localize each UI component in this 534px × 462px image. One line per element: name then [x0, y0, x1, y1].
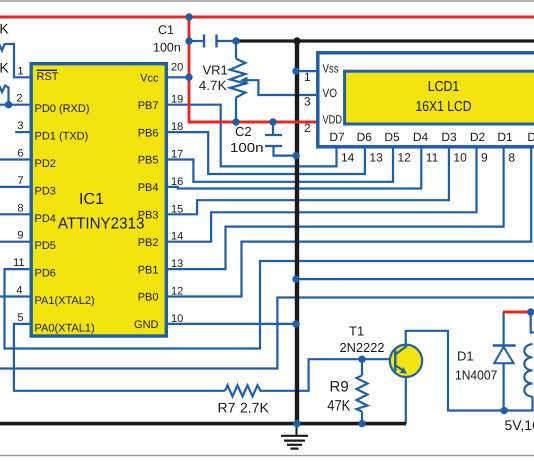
svg-text:PB1: PB1 — [138, 264, 159, 276]
svg-text:D7: D7 — [329, 130, 345, 144]
svg-text:3: 3 — [304, 95, 311, 109]
svg-text:13: 13 — [369, 151, 383, 165]
svg-text:20: 20 — [171, 62, 183, 74]
svg-text:12: 12 — [171, 286, 183, 298]
svg-text:19: 19 — [171, 94, 183, 106]
svg-text:PD4: PD4 — [35, 213, 56, 225]
svg-text:PB5: PB5 — [138, 155, 159, 167]
svg-text:3: 3 — [17, 120, 23, 132]
svg-text:D1: D1 — [457, 349, 474, 364]
svg-text:D3: D3 — [441, 130, 457, 144]
svg-text:RST: RST — [37, 71, 59, 83]
svg-text:PD3: PD3 — [35, 185, 56, 197]
svg-text:2: 2 — [304, 121, 311, 135]
svg-text:10: 10 — [171, 313, 183, 325]
svg-text:PB4: PB4 — [138, 182, 159, 194]
svg-text:13: 13 — [171, 258, 183, 270]
svg-text:2: 2 — [16, 93, 22, 105]
svg-text:PB7: PB7 — [138, 100, 159, 112]
svg-text:8: 8 — [508, 151, 515, 165]
svg-text:PD2: PD2 — [35, 158, 56, 170]
svg-text:C2: C2 — [235, 124, 252, 139]
svg-text:17: 17 — [171, 149, 183, 161]
svg-text:5: 5 — [17, 312, 23, 324]
svg-text:PD1 (TXD): PD1 (TXD) — [35, 131, 89, 143]
svg-text:47K: 47K — [327, 398, 350, 415]
svg-text:18: 18 — [171, 121, 183, 133]
svg-text:C1: C1 — [158, 23, 174, 37]
svg-text:T1: T1 — [349, 323, 364, 338]
svg-text:PA0(XTAL1): PA0(XTAL1) — [35, 322, 95, 334]
svg-text:8: 8 — [17, 202, 23, 214]
svg-text:11: 11 — [13, 257, 24, 269]
svg-text:9: 9 — [481, 151, 488, 165]
svg-text:16: 16 — [171, 176, 183, 188]
svg-text:1: 1 — [17, 65, 23, 77]
svg-text:LCD1: LCD1 — [428, 79, 460, 95]
svg-text:VDD: VDD — [323, 113, 343, 127]
svg-text:Vss: Vss — [323, 62, 339, 76]
svg-text:PD0 (RXD): PD0 (RXD) — [35, 103, 90, 115]
svg-text:K: K — [0, 21, 9, 37]
svg-text:ATTINY2313: ATTINY2313 — [58, 216, 145, 233]
svg-text:PD5: PD5 — [35, 240, 56, 252]
svg-text:D0: D0 — [527, 130, 534, 144]
svg-text:11: 11 — [426, 151, 439, 165]
svg-text:12: 12 — [398, 151, 412, 165]
svg-text:1: 1 — [304, 70, 311, 84]
svg-text:6: 6 — [17, 148, 23, 160]
svg-text:D2: D2 — [470, 130, 486, 144]
svg-text:4.7K: 4.7K — [199, 78, 227, 93]
svg-text:7: 7 — [17, 175, 23, 187]
svg-text:D5: D5 — [384, 130, 400, 144]
svg-text:D6: D6 — [357, 130, 373, 144]
svg-text:16X1 LCD: 16X1 LCD — [416, 99, 472, 115]
svg-text:GND: GND — [134, 319, 159, 331]
svg-text:1N4007: 1N4007 — [455, 368, 497, 383]
svg-text:PB2: PB2 — [138, 237, 159, 249]
svg-text:VR1: VR1 — [203, 63, 228, 78]
svg-text:K: K — [0, 60, 9, 76]
svg-text:D1: D1 — [497, 130, 513, 144]
svg-text:14: 14 — [341, 151, 355, 165]
svg-text:R9: R9 — [330, 379, 349, 396]
svg-text:15: 15 — [171, 203, 183, 215]
svg-text:IC1: IC1 — [79, 191, 104, 208]
svg-text:D4: D4 — [413, 130, 429, 144]
svg-text:PD6: PD6 — [35, 268, 56, 280]
svg-text:Vcc: Vcc — [140, 73, 159, 85]
svg-text:100n: 100n — [153, 41, 181, 55]
svg-text:9: 9 — [17, 230, 23, 242]
svg-text:PB0: PB0 — [138, 292, 159, 304]
svg-text:4: 4 — [16, 285, 22, 297]
svg-text:VO: VO — [323, 86, 338, 100]
svg-text:10: 10 — [453, 151, 467, 165]
svg-text:2N2222: 2N2222 — [340, 340, 385, 355]
svg-text:2.7K: 2.7K — [240, 400, 269, 416]
svg-text:PA1(XTAL2): PA1(XTAL2) — [35, 295, 95, 307]
svg-text:100n: 100n — [230, 140, 264, 155]
svg-text:PB6: PB6 — [138, 127, 159, 139]
svg-text:14: 14 — [171, 231, 183, 243]
svg-text:5V,1C/O: 5V,1C/O — [505, 417, 534, 433]
svg-text:R7: R7 — [218, 400, 236, 416]
